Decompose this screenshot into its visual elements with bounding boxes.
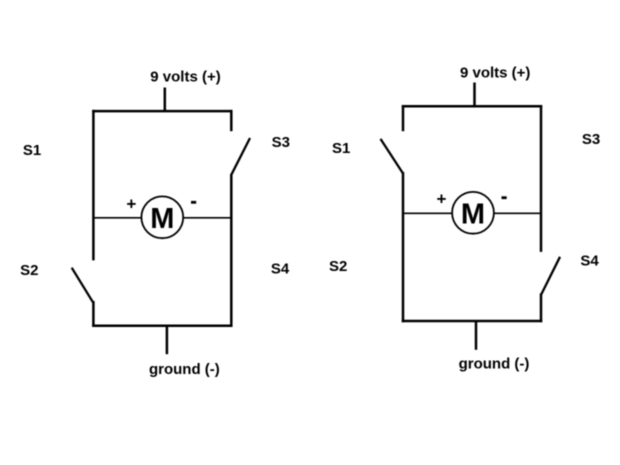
svg-text:S4: S4 [580, 252, 599, 269]
wire: top rail, right circuit [402, 105, 542, 108]
svg-text:S1: S1 [332, 140, 350, 157]
svg-text:S2: S2 [329, 258, 347, 275]
motor M body circle, left circuit [141, 196, 183, 238]
wire: right vertical lower (switch S4 closed path), left circuit [230, 174, 233, 327]
wire: left vertical lower (switch S2 closed path), right circuit [402, 172, 405, 322]
wire: ground stub, left circuit [166, 326, 169, 355]
label: - terminal polarity, left circuit [191, 201, 196, 204]
wire: supply stub, left circuit [164, 88, 167, 112]
wire: left vertical upper (switch S1 closed path), left circuit [92, 110, 95, 261]
wire: motor feed right segment, right circuit [493, 212, 541, 214]
wire: motor feed right segment, left circuit [183, 217, 232, 219]
wire: ground stub, right circuit [475, 321, 478, 350]
wire: right vertical upper (switch S3 closed path), right circuit [540, 105, 543, 252]
switch S2 blade (open), left circuit [72, 268, 93, 303]
wire: motor feed left segment, left circuit [93, 217, 142, 219]
wire: right vertical lower below S4, right circuit [540, 294, 543, 323]
svg-text:M: M [150, 203, 174, 235]
wire: left vertical upper above S1, right circuit [402, 105, 405, 131]
svg-text:+: + [437, 189, 447, 208]
svg-text:M: M [461, 199, 485, 231]
motor M body circle, right circuit [452, 192, 494, 234]
switch S3 blade (open), left circuit [231, 138, 250, 175]
wire: bottom rail, left circuit [92, 324, 232, 327]
svg-text:9 volts (+): 9 volts (+) [460, 65, 530, 82]
label: - terminal polarity, right circuit [502, 196, 507, 199]
wire: right vertical upper above S3, left circuit [230, 110, 233, 131]
switch S4 blade (open), right circuit [541, 257, 560, 295]
wire: top rail, left circuit [92, 110, 232, 113]
svg-text:+: + [126, 194, 136, 213]
wire: bottom rail, right circuit [402, 320, 542, 323]
wire: supply stub, right circuit [473, 83, 476, 107]
wire: left vertical lower below S2, left circuit [92, 301, 95, 327]
svg-text:9 volts (+): 9 volts (+) [150, 69, 220, 86]
svg-text:ground (-): ground (-) [459, 356, 530, 373]
svg-text:ground (-): ground (-) [149, 361, 220, 378]
svg-text:S1: S1 [23, 142, 41, 159]
svg-text:S4: S4 [271, 261, 290, 278]
svg-text:S2: S2 [20, 262, 38, 279]
svg-text:S3: S3 [582, 131, 600, 148]
switch S1 blade (open), right circuit [381, 139, 403, 173]
svg-text:S3: S3 [272, 134, 290, 151]
wire: motor feed left segment, right circuit [403, 212, 453, 214]
